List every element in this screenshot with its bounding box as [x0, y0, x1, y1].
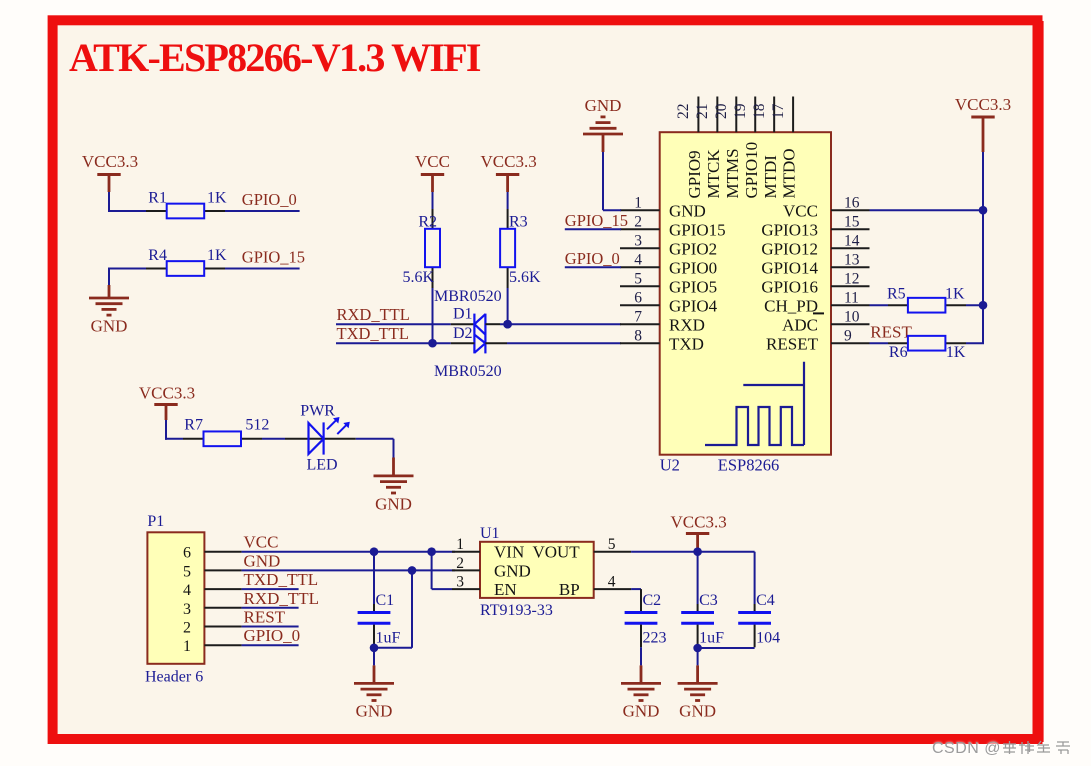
wire R5 to bus: [966, 304, 983, 306]
svg-text:GPIO12: GPIO12: [761, 240, 818, 259]
wire U2 pin16 to bus: [870, 209, 984, 211]
svg-text:D1: D1: [453, 306, 473, 323]
wire GPIO_0: [565, 266, 621, 268]
svg-text:REST: REST: [870, 323, 912, 342]
svg-text:GPIO15: GPIO15: [669, 221, 726, 240]
svg-text:1: 1: [456, 536, 464, 553]
U2 left pin 6 (GPIO4): [620, 290, 718, 316]
junction C3 bottom: [693, 644, 702, 653]
svg-text:MTCK: MTCK: [704, 149, 723, 199]
svg-text:20: 20: [713, 103, 730, 119]
svg-text:GPIO14: GPIO14: [761, 259, 818, 278]
connector P1 body: [147, 532, 204, 664]
svg-text:GPIO_15: GPIO_15: [242, 247, 305, 266]
svg-text:VCC: VCC: [244, 533, 279, 552]
wire R7 to LED: [262, 438, 285, 440]
svg-text:BP: BP: [559, 580, 580, 599]
U2 top pin 22 (GPIO9): [675, 97, 704, 199]
svg-text:1: 1: [183, 638, 191, 655]
power port VCC3.3 (left, above R1): [82, 152, 138, 192]
ground symbol (C1): [354, 682, 394, 685]
svg-text:ATK-ESP8266-V1.3 WIFI: ATK-ESP8266-V1.3 WIFI: [69, 35, 481, 80]
U2 left pin 1 (GND): [620, 195, 706, 221]
capacitor C3 plates: [681, 613, 714, 624]
wire U2 pin9 to R6: [870, 342, 889, 344]
svg-text:6: 6: [634, 290, 642, 307]
svg-text:7: 7: [634, 309, 642, 326]
diode D1 (MBR0520): [474, 314, 485, 354]
wire U1 pin4 to C2: [631, 589, 641, 611]
svg-text:D2: D2: [453, 325, 473, 342]
resistor R2 body: [425, 229, 440, 267]
wire R3 down to RXD line: [507, 288, 509, 324]
svg-text:GPIO10: GPIO10: [742, 142, 761, 199]
svg-text:GND: GND: [679, 701, 716, 720]
resistor R6 leads: [888, 342, 966, 344]
svg-text:C3: C3: [699, 592, 718, 609]
junction VCC/pin16: [979, 206, 988, 215]
sheet red border frame (right edge extra): [1040, 21, 1043, 742]
U1 left pin 2 (GND): [452, 555, 531, 581]
svg-text:VOUT: VOUT: [532, 543, 580, 562]
capacitor C2 bottom lead: [640, 625, 642, 684]
resistor R6 body: [908, 336, 946, 351]
wire C1 bottom to GND row: [374, 570, 412, 647]
svg-text:EN: EN: [494, 580, 517, 599]
svg-text:16: 16: [844, 195, 860, 212]
svg-text:GPIO2: GPIO2: [669, 240, 717, 259]
svg-text:5.6K: 5.6K: [509, 269, 541, 286]
wire net stub P1 row 2: [242, 626, 299, 628]
U1 left pin 3 (EN): [452, 574, 517, 600]
svg-text:MBR0520: MBR0520: [434, 363, 502, 380]
wire GPIO_15: [565, 228, 621, 230]
svg-text:TXD_TTL: TXD_TTL: [244, 570, 319, 589]
junction C1 bottom: [370, 644, 379, 653]
U2 right pin 11 (CH_PD): [764, 290, 869, 316]
svg-text:GND: GND: [244, 551, 281, 570]
svg-text:MTDI: MTDI: [761, 155, 780, 199]
svg-text:512: 512: [245, 417, 269, 434]
power port VCC3.3 (above C3): [670, 513, 726, 552]
svg-text:GND: GND: [585, 96, 622, 115]
ground symbol (inverted, above U2 pin1): [583, 133, 623, 136]
wire VCC3.3 to R1: [108, 192, 146, 212]
svg-text:2: 2: [456, 555, 464, 572]
U2 right pin 12 (GPIO16): [761, 271, 869, 297]
svg-text:1K: 1K: [946, 344, 966, 361]
U2 top pin 17 (MTDO): [770, 97, 799, 199]
junction C1/VCC row: [370, 547, 379, 556]
svg-text:C1: C1: [376, 592, 395, 609]
svg-text:GND: GND: [375, 495, 412, 514]
wire VCC3.3 vertical bus: [982, 152, 984, 343]
power port VCC3.3 (above R3): [480, 152, 536, 192]
svg-text:4: 4: [634, 252, 642, 269]
svg-text:MTMS: MTMS: [723, 148, 742, 198]
svg-text:3: 3: [456, 574, 464, 591]
power port VCC (above R2): [415, 152, 450, 192]
IC U2 body: [660, 132, 831, 455]
junction EN/VCC: [427, 547, 436, 556]
svg-text:5: 5: [634, 271, 642, 288]
P1 pin 2: [183, 620, 242, 637]
U2 top pin 20 (MTMS): [713, 97, 742, 199]
svg-text:1K: 1K: [207, 190, 227, 207]
svg-text:VCC: VCC: [415, 152, 450, 171]
capacitor C3 bottom lead: [697, 625, 699, 648]
svg-text:VCC3.3: VCC3.3: [139, 384, 195, 403]
svg-text:4: 4: [608, 574, 616, 591]
svg-text:104: 104: [756, 630, 780, 647]
svg-text:PWR: PWR: [300, 403, 335, 420]
ground symbol (below LED): [374, 474, 414, 477]
U2 right pin 15 (GPIO13): [761, 214, 869, 240]
resistor R1 leads: [146, 210, 225, 212]
svg-text:15: 15: [844, 214, 860, 231]
U2 right pin 14 (GPIO12): [761, 233, 869, 259]
wire / net GPIO_15 (R4): [225, 268, 300, 270]
IC U1 body: [480, 542, 594, 598]
U2 right pin 9 (RESET): [766, 328, 869, 354]
svg-text:RXD_TTL: RXD_TTL: [244, 589, 320, 608]
capacitor C4 top lead: [754, 552, 756, 612]
svg-text:5: 5: [183, 563, 191, 580]
svg-text:MBR0520: MBR0520: [434, 288, 502, 305]
svg-text:VCC: VCC: [783, 202, 818, 221]
wire RXD_TTL: [336, 323, 451, 325]
wire U2 pin11 to R5: [870, 304, 889, 306]
svg-text:GPIO_0: GPIO_0: [565, 249, 620, 268]
LED D3 leads: [285, 438, 356, 440]
wire VCC3.3 to R3: [507, 192, 509, 209]
LED symbol: [309, 422, 324, 454]
svg-text:5: 5: [608, 536, 616, 553]
wire / net GPIO_0 (R1): [225, 210, 300, 212]
svg-text:GPIO0: GPIO0: [669, 259, 717, 278]
svg-text:13: 13: [844, 252, 860, 269]
U2 top pin 19 (GPIO10): [732, 97, 761, 199]
svg-text:LED: LED: [307, 457, 338, 474]
svg-text:GPIO13: GPIO13: [761, 221, 818, 240]
svg-text:5.6K: 5.6K: [402, 269, 434, 286]
junction GND row: [408, 566, 417, 575]
ground symbol (C2): [621, 682, 661, 685]
U1 right pin 4 (BP): [559, 574, 631, 600]
svg-text:GPIO_15: GPIO_15: [565, 211, 628, 230]
svg-text:VCC3.3: VCC3.3: [480, 152, 536, 171]
svg-text:U1: U1: [480, 525, 500, 542]
svg-text:VCC3.3: VCC3.3: [82, 152, 138, 171]
power port VCC3.3 (above R7): [139, 384, 195, 421]
svg-text:223: 223: [643, 630, 667, 647]
svg-text:3: 3: [183, 601, 191, 618]
wire net stub P1 row 4: [242, 588, 299, 590]
P1 pin 5: [183, 563, 242, 580]
svg-text:R7: R7: [184, 417, 203, 434]
diode D2 lead right + wire to pin8: [485, 342, 621, 344]
svg-text:1uF: 1uF: [376, 630, 401, 647]
svg-text:GPIO_0: GPIO_0: [244, 626, 301, 645]
svg-text:GPIO_0: GPIO_0: [242, 190, 297, 209]
svg-text:3: 3: [634, 233, 642, 250]
svg-text:14: 14: [844, 233, 860, 250]
svg-text:VCC3.3: VCC3.3: [670, 513, 726, 532]
ground symbol (below R4 wire): [89, 298, 129, 315]
diode D2 lead left: [451, 342, 475, 344]
junction D1/R3: [503, 320, 512, 329]
svg-text:2: 2: [183, 620, 191, 637]
svg-text:TXD_TTL: TXD_TTL: [337, 324, 409, 343]
junction VOUT/VCC3.3: [693, 547, 702, 556]
wire LED to GND: [356, 439, 394, 476]
svg-text:GND: GND: [356, 701, 393, 720]
LED arrows: [327, 417, 350, 434]
wire VOUT to C3/C4: [631, 551, 755, 553]
junction R2/TXD: [428, 339, 437, 348]
svg-text:VIN: VIN: [494, 543, 524, 562]
svg-text:17: 17: [770, 103, 787, 119]
resistor R5 leads: [888, 304, 966, 306]
capacitor C1 top lead: [373, 552, 375, 612]
capacitor C3 top lead: [697, 552, 699, 612]
svg-text:VCC3.3: VCC3.3: [955, 95, 1011, 114]
svg-text:GPIO16: GPIO16: [761, 278, 818, 297]
svg-text:19: 19: [732, 103, 749, 119]
wire VCC to R2: [432, 192, 434, 209]
svg-text:22: 22: [675, 104, 692, 120]
svg-text:GPIO4: GPIO4: [669, 297, 718, 316]
wire GND row (P1 pin5 to U1 pin2): [242, 569, 455, 571]
svg-text:P1: P1: [147, 513, 164, 530]
watermark: [932, 739, 1077, 758]
resistor R4 body: [167, 261, 205, 276]
svg-text:RT9193-33: RT9193-33: [480, 602, 553, 619]
U2 antenna symbol: [705, 362, 804, 445]
P1 pin 3: [183, 601, 242, 618]
svg-text:1K: 1K: [945, 285, 965, 302]
svg-text:1uF: 1uF: [699, 630, 724, 647]
svg-text:RXD_TTL: RXD_TTL: [337, 305, 410, 324]
P1 pin 6: [183, 545, 242, 562]
svg-text:R2: R2: [418, 214, 437, 231]
svg-text:21: 21: [694, 104, 711, 120]
svg-text:GND: GND: [669, 202, 706, 221]
svg-text:U2: U2: [660, 456, 680, 475]
svg-text:RESET: RESET: [766, 335, 819, 354]
wire TXD_TTL: [336, 342, 451, 344]
svg-text:CH_PD: CH_PD: [764, 297, 818, 316]
U2 right pin 16 (VCC): [783, 195, 869, 221]
svg-text:GPIO5: GPIO5: [669, 278, 717, 297]
svg-text:MTDO: MTDO: [780, 148, 799, 198]
wire C3 to ground: [697, 648, 699, 683]
svg-text:2: 2: [634, 214, 642, 231]
P1 pin 4: [183, 582, 242, 599]
diode D1 lead left: [451, 323, 475, 325]
resistor R3 leads: [507, 209, 509, 288]
svg-text:GND: GND: [91, 317, 128, 336]
wire R6 to bus corner: [966, 342, 984, 344]
svg-text:1K: 1K: [207, 247, 227, 264]
overline mark near ADC: [813, 312, 824, 314]
svg-text:REST: REST: [244, 608, 286, 627]
wire net stub P1 row 1: [242, 644, 299, 646]
U2 top pin 21 (MTCK): [694, 97, 723, 199]
capacitor C1 bottom lead: [373, 625, 375, 648]
svg-text:GND: GND: [494, 561, 531, 580]
capacitor C4 plates: [738, 613, 771, 624]
svg-text:R3: R3: [509, 214, 528, 231]
svg-text:12: 12: [844, 271, 860, 288]
capacitor C4 bottom lead + wire to C3: [698, 625, 755, 648]
svg-text:9: 9: [844, 328, 852, 345]
wire GND to U2 pin1: [603, 134, 621, 210]
svg-text:R5: R5: [887, 285, 906, 302]
svg-text:GND: GND: [623, 701, 660, 720]
U2 left pin 5 (GPIO5): [620, 271, 717, 297]
svg-text:8: 8: [634, 328, 642, 345]
svg-text:11: 11: [844, 290, 859, 307]
svg-text:Header 6: Header 6: [145, 669, 203, 686]
wire VCC row (P1 pin6 to U1 pin1): [242, 551, 455, 553]
U1 right pin 5 (VOUT): [532, 536, 631, 562]
svg-text:C2: C2: [643, 592, 662, 609]
svg-text:C4: C4: [756, 592, 775, 609]
U2 right pin 13 (GPIO14): [761, 252, 869, 278]
resistor R5 body: [908, 298, 946, 313]
resistor R2 leads: [432, 209, 434, 288]
P1 pin 1: [183, 638, 242, 655]
resistor R7 leads: [183, 438, 262, 440]
U1 left pin 1 (VIN): [452, 536, 524, 562]
power port VCC3.3 (top right): [955, 95, 1011, 152]
svg-text:ESP8266: ESP8266: [718, 456, 779, 475]
svg-text:TXD: TXD: [669, 335, 704, 354]
resistor R7 body: [204, 431, 242, 446]
U2 left pin 4 (GPIO0): [620, 252, 717, 278]
U2 left pin 8 (TXD): [620, 328, 704, 354]
U2 left pin 7 (RXD): [620, 309, 705, 335]
wire EN branch from VCC row: [432, 552, 452, 589]
wire VCC3.3 to R7: [165, 420, 183, 440]
capacitor C1 plates: [358, 613, 391, 624]
diode D2 (MBR0520): [474, 335, 485, 353]
wire net stub P1 row 3: [242, 607, 299, 609]
U2 left pin 2 (GPIO15): [620, 214, 726, 240]
junction R5/bus: [979, 301, 988, 310]
svg-text:RXD: RXD: [669, 316, 705, 335]
resistor R1 body: [167, 204, 205, 219]
wire R2 down to TXD line: [432, 288, 434, 343]
capacitor C2 plates: [625, 613, 658, 624]
svg-text:6: 6: [183, 545, 191, 562]
U2 left pin 3 (GPIO2): [620, 233, 717, 259]
svg-text:10: 10: [844, 309, 860, 326]
svg-text:R4: R4: [148, 247, 167, 264]
U2 top pin 18 (MTDI): [751, 97, 780, 199]
svg-text:4: 4: [183, 582, 191, 599]
ground symbol (C3): [678, 682, 718, 685]
svg-text:R6: R6: [889, 344, 908, 361]
resistor R3 body: [500, 229, 515, 267]
resistor R4 leads: [146, 268, 225, 270]
svg-text:GPIO9: GPIO9: [685, 150, 704, 198]
svg-text:1: 1: [634, 195, 642, 212]
diode D1 lead right + wire to pin7: [485, 323, 621, 325]
svg-text:ADC: ADC: [782, 316, 818, 335]
svg-text:R1: R1: [148, 190, 167, 207]
wire GND to R4: [108, 268, 146, 299]
svg-text:18: 18: [751, 103, 768, 119]
junction R3/RXD: [503, 320, 512, 329]
wire C1 to ground: [373, 648, 375, 684]
U2 right pin 10 (ADC): [782, 309, 869, 335]
